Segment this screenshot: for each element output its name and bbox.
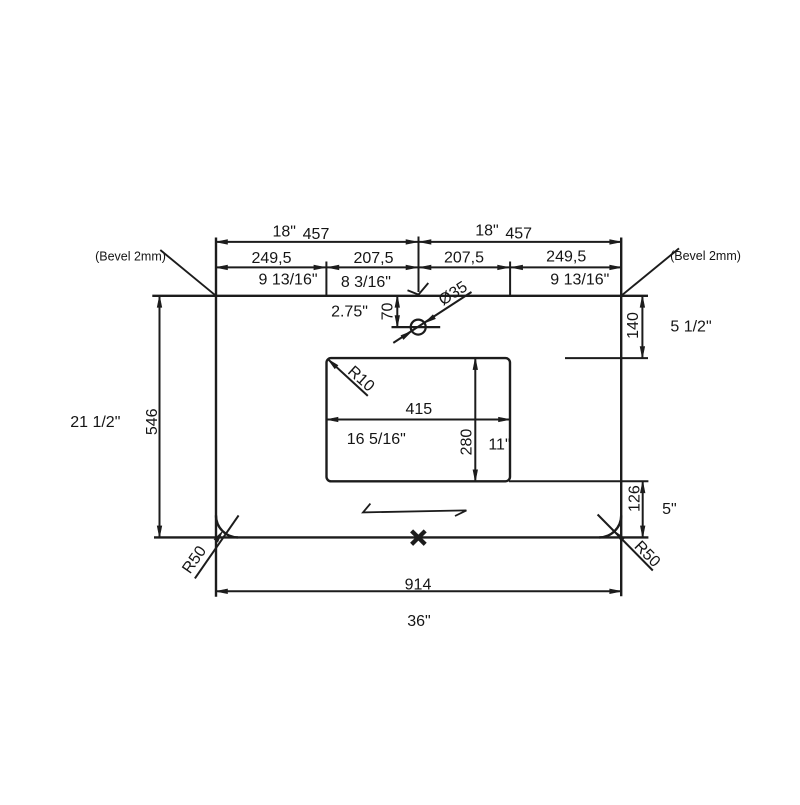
arrow row2 x1 right: [327, 265, 339, 270]
faucet leader arrow upper-right: [425, 315, 436, 323]
arrow 415 left: [327, 417, 339, 422]
svg-text:140: 140: [625, 312, 642, 339]
arrow 457 center-left: [406, 240, 418, 245]
R50 left arrow: [214, 531, 222, 542]
arrow 457 outer-left: [216, 240, 228, 245]
arrow 415 right: [499, 417, 511, 422]
dim line 415: [327, 419, 511, 421]
X drain mark on bottom edge: [412, 531, 426, 544]
surface mark near sink bottom: [363, 504, 466, 516]
arrow 140 top: [640, 296, 645, 308]
svg-text:546: 546: [144, 408, 161, 435]
bottom-right corner arc R50: [599, 515, 621, 537]
svg-text:914: 914: [405, 577, 432, 594]
svg-text:5": 5": [662, 501, 677, 518]
arrow 70 bottom: [395, 316, 400, 328]
svg-text:R10: R10: [344, 363, 377, 395]
svg-text:21 1/2": 21 1/2": [70, 414, 120, 431]
R50 right arrow: [615, 532, 625, 542]
dim line 457 left: [216, 241, 419, 243]
faucet leader arrow lower-left: [401, 331, 412, 339]
svg-text:126: 126: [627, 485, 644, 512]
arrow 126 bottom: [640, 526, 645, 538]
faucet hole circle: [411, 320, 426, 335]
faucet hole horizontal centerline: [392, 326, 441, 328]
right bevel leader line: [621, 248, 679, 295]
sink R10 leader arrow: [328, 359, 338, 369]
arrow row2 right end: [610, 265, 622, 270]
left bevel leader line: [160, 250, 216, 296]
sink cutout rounded rect: [327, 358, 511, 481]
dim line row2: [216, 266, 621, 268]
svg-text:18": 18": [272, 224, 295, 241]
countertop left edge (with extension lines): [215, 238, 217, 597]
dim line 126: [642, 481, 644, 537]
svg-text:R50: R50: [631, 538, 664, 571]
extension tick x=326: [325, 262, 327, 296]
svg-text:5 1/2": 5 1/2": [670, 319, 711, 336]
bottom-left corner arc R50: [216, 515, 238, 537]
dim line 457 right: [419, 241, 622, 243]
countertop top edge (with extensions): [152, 295, 648, 297]
arrow row2 x2 right: [511, 265, 522, 270]
sink bottom edge extension line: [509, 480, 648, 482]
arrow 914 left: [216, 589, 228, 594]
dim line 70: [396, 296, 398, 327]
svg-text:11": 11": [488, 437, 510, 454]
countertop right edge (with extension lines): [620, 238, 622, 597]
svg-text:280: 280: [459, 429, 476, 456]
arrow 140 bottom: [640, 347, 645, 359]
svg-text:(Bevel 2mm): (Bevel 2mm): [95, 250, 166, 264]
sink R10 leader: [328, 359, 368, 396]
arrow row2 center left: [406, 265, 418, 270]
centerline open arrow: [408, 283, 429, 295]
arrow row2 x2 left: [498, 265, 510, 270]
svg-text:16 5/16": 16 5/16": [347, 431, 406, 448]
svg-text:9 13/16": 9 13/16": [258, 272, 317, 289]
centerline tick: [418, 237, 420, 293]
svg-text:457: 457: [303, 226, 330, 243]
svg-text:249,5: 249,5: [546, 249, 586, 266]
arrow row2 x1 left: [314, 265, 326, 270]
svg-text:249,5: 249,5: [251, 250, 291, 267]
dim line 914: [216, 590, 621, 592]
svg-text:457: 457: [505, 226, 532, 243]
sink top edge extension line: [565, 357, 648, 359]
svg-text:8 3/16": 8 3/16": [341, 274, 391, 291]
arrow 457 center-right: [420, 240, 432, 245]
arrow 457 outer-right: [610, 240, 622, 245]
svg-text:2.75": 2.75": [331, 304, 368, 321]
faucet diameter leader: [393, 292, 471, 343]
arrow 126 top: [640, 481, 645, 493]
arrow 70 top: [395, 296, 400, 308]
svg-text:(Bevel 2mm): (Bevel 2mm): [670, 249, 741, 263]
arrow 546 bottom: [157, 526, 162, 538]
svg-text:9 13/16": 9 13/16": [550, 272, 609, 289]
arrow 280 top: [473, 358, 478, 370]
svg-text:18": 18": [475, 223, 498, 240]
svg-text:207,5: 207,5: [353, 250, 393, 267]
arrow 914 right: [610, 589, 622, 594]
dim line 140: [641, 296, 643, 358]
dim line 280: [474, 358, 476, 481]
svg-text:R50: R50: [179, 543, 210, 577]
extension tick x=510: [509, 262, 511, 296]
R50 left leader: [195, 515, 239, 578]
svg-text:70: 70: [380, 303, 397, 321]
svg-text:207,5: 207,5: [444, 249, 484, 266]
svg-text:415: 415: [405, 401, 432, 418]
arrow 546 top: [157, 296, 162, 308]
arrow 280 bottom: [473, 470, 478, 482]
arrow row2 left end: [216, 265, 228, 270]
svg-text:36": 36": [407, 613, 430, 630]
arrow row2 center right: [420, 265, 432, 270]
R50 right leader: [598, 515, 653, 571]
dim line 546: [159, 296, 161, 538]
countertop bottom edge (with extensions): [154, 536, 648, 538]
